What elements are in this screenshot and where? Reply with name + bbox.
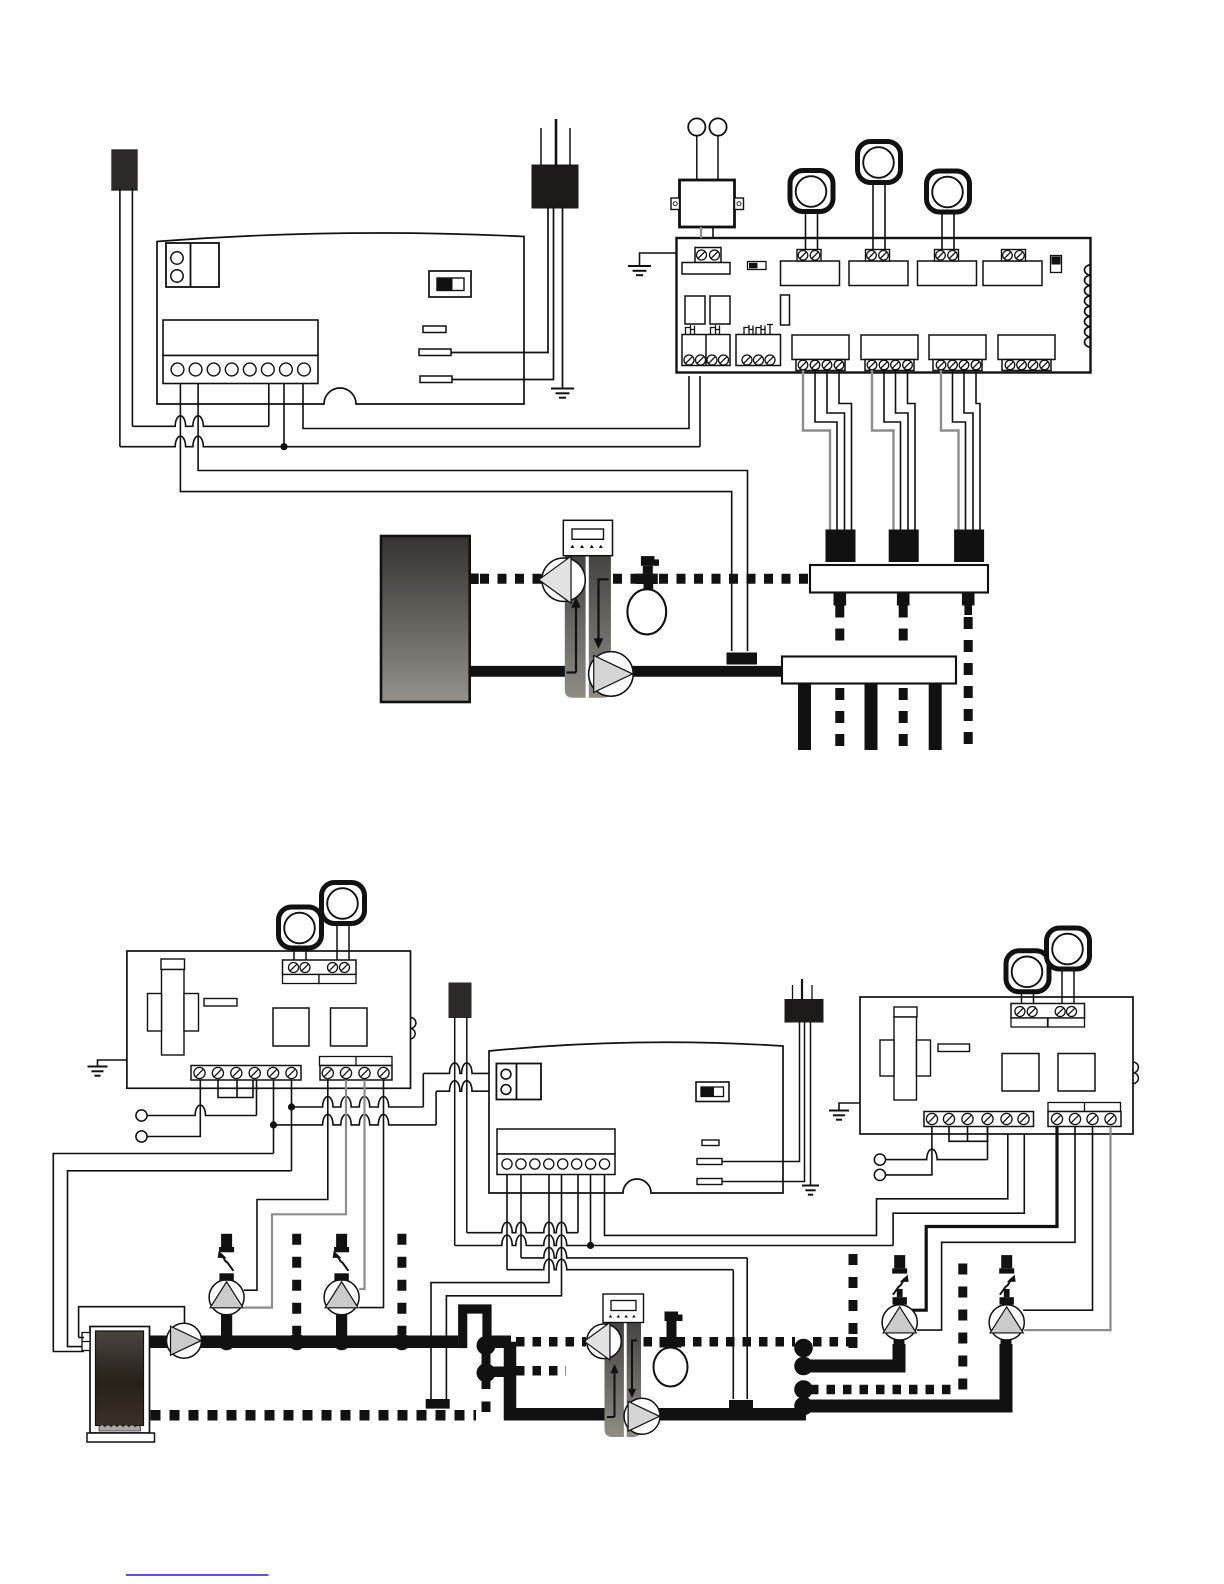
return manifold M2 [782, 657, 956, 684]
manifold M1 zone stubs [834, 593, 975, 616]
junction dots on primary loop [218, 1333, 410, 1350]
wire outdoor sensor common bus [120, 376, 700, 447]
zone valve actuator Z1 [790, 171, 833, 250]
zone control U2 board [677, 238, 1091, 373]
supply manifold M1 [810, 565, 988, 593]
air separator AS1 with vent [627, 556, 666, 634]
transformer T3 [785, 979, 823, 1022]
U1 jumper JP3 [420, 376, 452, 383]
U4 jumper JP1 [702, 1140, 719, 1146]
cable gland zone 3 [955, 530, 984, 562]
supply sensor S5 [729, 1400, 753, 1410]
U3 relay assembly [148, 959, 199, 1055]
boiler B2 [87, 1327, 155, 1443]
zone pump P7 (bottom right) [989, 1255, 1024, 1350]
cable gland zone 1 [826, 530, 855, 562]
wire U3 output 3 to pump P5 [359, 1080, 364, 1290]
boiler B1 [381, 536, 470, 702]
air separator AS2 with vent [654, 1312, 688, 1387]
MS1 control head [563, 520, 612, 555]
junction B [270, 1121, 277, 1128]
outdoor sensor S1 [112, 150, 137, 190]
pipe to zone pump P6 [806, 1344, 899, 1366]
wire T2 secondary to U2 [701, 227, 713, 238]
U2 relays K5 K6 [685, 296, 730, 324]
mixing controller U4 outline [489, 1042, 783, 1193]
U4 input terminal [496, 1064, 541, 1100]
U5 component bar [938, 1044, 970, 1052]
wire bus A to boiler aquastat [68, 1171, 292, 1347]
U1 jumper JP2 [419, 349, 451, 356]
wire bus B to boiler aquastat [53, 1154, 273, 1352]
pipe boiler supply stub [470, 574, 479, 585]
U2 relay K4 [983, 250, 1042, 286]
wire contact 2 to U5 terminal 1 [886, 1127, 932, 1175]
wire U5 output 3 to pump P7 [1023, 1127, 1092, 1311]
supply sensor S3 on return pipe [727, 653, 758, 665]
wire U3 to ground [98, 1060, 127, 1066]
MS2 internal flow arrows [607, 1341, 637, 1418]
secondary pump P2 [589, 652, 634, 697]
wire T1 primary leads [541, 119, 570, 166]
zone actuator Z4 [279, 907, 322, 960]
U5 low voltage strip [924, 1112, 1034, 1127]
zone return pipes [805, 684, 936, 751]
ground G3 [88, 1067, 108, 1076]
wire U5 to ground [839, 1103, 860, 1110]
U1 terminal strip TB1 [163, 320, 318, 384]
cable bundle zone 1 [803, 370, 852, 532]
mixing controller U1 outline [157, 233, 524, 404]
wire U3 terminal 6 sensor bus A [292, 1063, 497, 1171]
U3 actuator terminal block [283, 960, 357, 984]
junction A [288, 1103, 295, 1110]
wire sensor S4 lead 1 to L2 [454, 1017, 456, 1246]
MS2 control head [603, 1294, 644, 1323]
wire U2 to ground [640, 253, 677, 266]
pipe primary supply (dashed) [480, 574, 810, 584]
zone actuator Z5 [322, 883, 365, 961]
zone pump P5 (bottom left) [324, 1234, 359, 1337]
U5 actuator terminal block [1011, 1004, 1085, 1028]
boiler pump P3 [167, 1323, 202, 1358]
wire U1 terminal 2 to supply sensor [198, 383, 747, 651]
U3 component bar [204, 999, 237, 1007]
wire U4 terminal 5 to return sensor S6 [446, 1175, 561, 1400]
U1 input terminal J1 [166, 243, 219, 287]
return sensor S6 [426, 1399, 450, 1409]
junction on common bus [280, 443, 287, 450]
wire T1 to JP3 [452, 207, 554, 380]
U3 terminal 2-3-4 bus [218, 1080, 253, 1098]
junction dot primary 2 [477, 1352, 506, 1412]
wire outdoor sensor to U1 terminal 6 [132, 383, 268, 426]
U5 relay assembly [880, 1007, 931, 1100]
wire U3 output 4 to pump P5 [359, 1080, 383, 1308]
U2 power terminal [682, 248, 730, 275]
U2 output terminal block 4 [998, 335, 1055, 371]
zone return dashed to riser [810, 1255, 963, 1390]
U2 terminal block A [682, 335, 730, 366]
U2 output terminal block 3 [929, 335, 986, 371]
U1 jumper JP1 [423, 326, 446, 333]
wire U4 terminal 1 to supply sensor S5 [507, 1175, 733, 1400]
zone actuator Z6 [1006, 951, 1049, 1004]
U5 coil [1133, 1062, 1138, 1084]
U2 output terminal block 2 [861, 335, 918, 371]
ground G5 [829, 1111, 849, 1120]
boiler sensor S4 [449, 983, 471, 1018]
cable gland zone 2 [889, 530, 918, 562]
wire T3 to ground [810, 1022, 812, 1185]
U2 component X1 [781, 295, 790, 325]
U4 jumper JP2 [697, 1159, 722, 1165]
U2 terminal block B [736, 335, 781, 366]
secondary supply dashed pipe [516, 1337, 853, 1347]
wire U4 terminal 4 to return sensor S6 [431, 1175, 549, 1400]
injection mixing station MS1 body [565, 556, 611, 698]
junction dot primary 1 [477, 1336, 496, 1355]
U5 relays [1002, 1054, 1095, 1092]
ground G1 [551, 389, 574, 398]
cable bundle zone 2 [872, 370, 915, 532]
hyperlink underline [126, 1574, 269, 1576]
U4 jumper JP3 [697, 1179, 722, 1185]
U5 terminal 2-3-4 bus [949, 1127, 988, 1142]
wire U1 terminal 8 to boiler control [303, 376, 689, 429]
U2 relay K2 [849, 250, 908, 286]
wire contact 1 to U3 terminal 4 [147, 1080, 256, 1116]
wire L2 sensor bus to right board [455, 1127, 1025, 1246]
mixing expansion module U3 board [127, 951, 411, 1088]
wire U4 terminal 8 to right board [605, 1127, 1008, 1236]
wire L1 sensor to U4 terminal 6 [467, 1175, 578, 1233]
cable bundle zone 3 [941, 370, 980, 532]
U2 right status component [1051, 256, 1062, 273]
U3 external contact terminals [136, 1110, 147, 1142]
wire T3 to U4 JP2 [722, 1022, 800, 1162]
wire U5 output 4 to pump P7 [1024, 1127, 1110, 1331]
U2 relay K3 [918, 250, 977, 286]
zone pump P4 (bottom left) [209, 1234, 244, 1337]
boiler aquastat tab [82, 1333, 90, 1351]
wire U5 output 2 to pump P6 [917, 1127, 1075, 1331]
ground G2 [628, 266, 651, 275]
U1 power switch SW1 [429, 271, 471, 297]
U4 power switch [696, 1082, 729, 1102]
wire U3 output 1 to pump P4 [244, 1080, 328, 1290]
distribution junction dots [794, 1339, 813, 1416]
wire contact 1 to U5 terminal 4 [886, 1127, 988, 1160]
injection station MS2 body [605, 1323, 642, 1438]
wire U1 terminal 1 to supply sensor [180, 383, 731, 651]
MS1 internal flow arrows [567, 579, 609, 672]
U2 fuse symbols [686, 325, 774, 335]
mixing expansion module U5 board [860, 997, 1133, 1134]
U2 dip switch [748, 262, 767, 270]
junction L2 [587, 1242, 594, 1249]
primary pump P1 [539, 556, 586, 603]
T2 line terminals [688, 118, 726, 180]
wire U4 terminal 2 to supply sensor S5 [521, 1175, 747, 1400]
transformer T1 [532, 165, 578, 208]
wire U3 output 2 to pump P4 [244, 1080, 346, 1308]
wire contact 2 to U3 terminal 1 [147, 1080, 200, 1137]
U5 output strip [1048, 1103, 1121, 1127]
wire U3 terminal 5 sensor bus B [274, 1080, 497, 1154]
wire S1 lead a [119, 188, 121, 447]
zone supply dashed pipes [840, 606, 968, 751]
wire S1 lead b [131, 188, 133, 426]
zone valve actuator Z2 [858, 142, 901, 250]
zone pump P6 (bottom right) [882, 1255, 917, 1350]
secondary feed pipe [510, 1342, 806, 1414]
wire T1 to ground [562, 207, 564, 388]
U2 relay K1 [781, 250, 840, 286]
wire sensor S4 lead 2 to L1 [466, 1017, 468, 1233]
U3 relays [273, 1008, 367, 1046]
U3 coil [411, 1018, 416, 1040]
U2 coil [1085, 265, 1091, 347]
wire T1 to JP2 [451, 207, 548, 353]
U5 external contact terminals [874, 1154, 885, 1181]
transformer T2 [671, 180, 744, 227]
U2 output terminal block 1 [792, 335, 849, 371]
zone valve actuator Z3 [927, 171, 970, 250]
U3 low voltage strip [191, 1066, 301, 1081]
system pump P9 [624, 1398, 660, 1434]
wire U5 output 1 to pump P6 [906, 1127, 1057, 1311]
zone actuator Z7 [1047, 928, 1090, 1004]
zone supply riser dashed (left) [849, 1254, 858, 1348]
U4 terminal strip [497, 1129, 615, 1175]
zone return dashed risers (left) [297, 1234, 402, 1334]
ground G4 [802, 1186, 819, 1195]
wire T3 to U4 JP3 [722, 1022, 805, 1182]
wire boiler pump power [79, 1307, 185, 1338]
boiler return pipe (dashed) [151, 1410, 477, 1421]
injection pump P8 [584, 1323, 621, 1361]
pipe boiler return [470, 666, 782, 677]
U3 output strip [320, 1057, 393, 1081]
pipe to zone pump P7 [806, 1344, 1006, 1406]
secondary return dashed stub [516, 1366, 566, 1376]
primary loop pipe [150, 1309, 512, 1348]
